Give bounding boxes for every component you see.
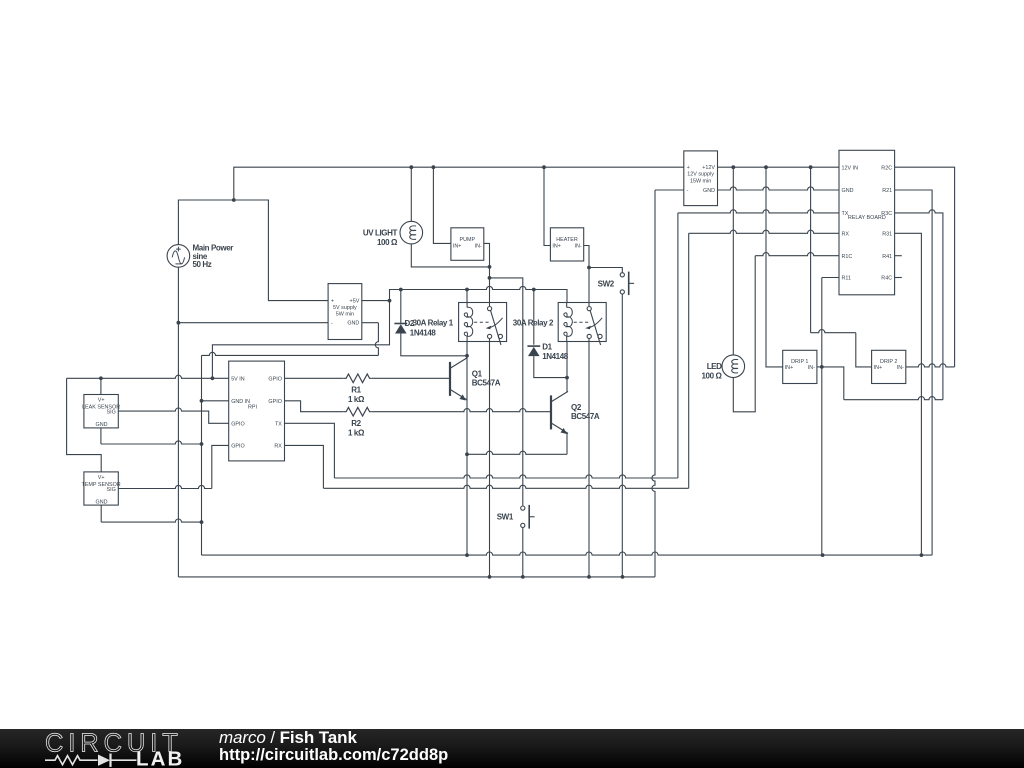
- wire: relay2 NO contact to neutral bus: [588, 339, 590, 577]
- wire: SW1 bottom to neutral bus: [522, 528, 524, 577]
- svg-text:R4C: R4C: [881, 276, 892, 282]
- transistor Q2: [551, 391, 600, 434]
- CircuitLab logo: [45, 730, 184, 768]
- svg-text:DRIP 2: DRIP 2: [880, 359, 897, 365]
- wire: R2C to DRIP2 IN-: [895, 167, 955, 367]
- pushbutton SW2: [598, 272, 634, 296]
- wire: R31 down to ground bus: [895, 233, 922, 555]
- voltage source V1 Main Power: [167, 244, 233, 269]
- wire: DRIP1 IN+ feed: [766, 167, 783, 367]
- svg-text:1 kΩ: 1 kΩ: [348, 395, 365, 404]
- svg-text:30A Relay 2: 30A Relay 2: [513, 318, 554, 327]
- svg-text:GND: GND: [96, 422, 108, 428]
- svg-text:GND: GND: [347, 321, 359, 327]
- wire: DRIP1 IN- node (R11 / R3C / ground): [817, 278, 844, 556]
- svg-text:IN-: IN-: [475, 244, 482, 250]
- svg-text:IN-: IN-: [575, 244, 582, 250]
- svg-text:+12V: +12V: [702, 165, 715, 171]
- diode D1: [527, 343, 568, 362]
- svg-text:SIG: SIG: [107, 487, 116, 493]
- svg-text:DRIP 1: DRIP 1: [791, 359, 808, 365]
- svg-text:50 Hz: 50 Hz: [193, 260, 212, 269]
- svg-text:BC547A: BC547A: [472, 379, 501, 388]
- wire: D1 cathode riser: [533, 290, 535, 345]
- svg-text:5V supply: 5V supply: [333, 305, 357, 311]
- svg-text:R2C: R2C: [881, 165, 892, 171]
- svg-text:-: -: [331, 321, 333, 327]
- svg-text:15W min: 15W min: [690, 178, 711, 184]
- svg-text:D1: D1: [542, 343, 552, 352]
- wire: GPIO to R1: [285, 377, 344, 379]
- svg-text:RX: RX: [274, 444, 282, 450]
- svg-text:R11: R11: [842, 276, 852, 282]
- svg-text:SW2: SW2: [598, 279, 615, 288]
- wire: UV light leads: [411, 167, 489, 267]
- wire: 5V IN line to RPI: [67, 375, 229, 380]
- wire: GPIO to R2: [285, 401, 344, 412]
- RPI box: [229, 361, 285, 461]
- wire: RPI RX to relay board: [285, 445, 324, 488]
- PUMP box: [451, 228, 484, 260]
- svg-text:BC547A: BC547A: [571, 412, 600, 421]
- TEMP SENSOR box: [82, 472, 121, 506]
- svg-text:1N4148: 1N4148: [410, 329, 437, 338]
- wire: 12V GND to relay board: [718, 187, 840, 190]
- wire: temp sensor GND: [100, 505, 102, 522]
- wire: LED feed from +12V: [732, 167, 734, 355]
- wire: RPI TX to relay board: [285, 423, 335, 478]
- svg-text:IN+: IN+: [552, 244, 561, 250]
- wire: logic ground bus: [202, 552, 933, 557]
- svg-text:RELAY BOARD: RELAY BOARD: [848, 215, 886, 221]
- wire: +5V output net: [211, 286, 568, 380]
- svg-text:Q2: Q2: [571, 403, 582, 412]
- wire: 5V GND net: [200, 323, 379, 555]
- LEAK SENSOR box: [82, 395, 120, 429]
- svg-text:UV LIGHT: UV LIGHT: [363, 228, 398, 237]
- svg-text:RPI: RPI: [248, 404, 257, 410]
- wire: temp sensor SIG to GPIO: [118, 485, 212, 488]
- wire: sensors V+ feed: [67, 378, 102, 472]
- svg-text:R41: R41: [882, 254, 892, 260]
- wire: heater IN- to relay 2 common and SW2: [584, 246, 623, 307]
- svg-text:GPIO: GPIO: [268, 377, 281, 383]
- svg-text:GPIO: GPIO: [268, 399, 281, 405]
- wire: RPI GND IN: [202, 400, 229, 402]
- wire: relay1 common jog to SW1: [490, 278, 523, 506]
- svg-text:V+: V+: [98, 475, 105, 481]
- wire: mains neutral bus: [177, 190, 684, 579]
- wire: D2 cathode riser: [400, 290, 402, 323]
- pushbutton SW1: [497, 505, 535, 529]
- wire: mains top lead / 5V supply + input: [178, 198, 328, 301]
- wire: R1 to Q1 base: [372, 377, 450, 379]
- svg-text:-: -: [687, 188, 689, 194]
- svg-text:12V IN: 12V IN: [842, 165, 859, 171]
- wire: Q1 collector to relay 1 coil / D2: [401, 334, 469, 399]
- svg-text:100 Ω: 100 Ω: [702, 371, 723, 380]
- svg-text:IN-: IN-: [808, 365, 815, 371]
- svg-text:1N4148: 1N4148: [542, 352, 569, 361]
- 12V supply box: [684, 151, 718, 206]
- svg-text:100 Ω: 100 Ω: [377, 238, 398, 247]
- lamp UV LIGHT: [363, 221, 423, 247]
- svg-text:GPIO: GPIO: [231, 444, 244, 450]
- svg-text:RX: RX: [842, 232, 850, 238]
- svg-text:+5V: +5V: [350, 299, 360, 305]
- svg-text:GND: GND: [96, 500, 108, 506]
- svg-text:GND: GND: [703, 188, 715, 194]
- svg-text:LED: LED: [707, 362, 722, 371]
- wire: pump IN- to relay 1 common: [484, 243, 492, 306]
- wire: 5V supply - input: [178, 322, 328, 324]
- svg-text:SW1: SW1: [497, 513, 514, 522]
- wire: relay1 NO contact to neutral bus: [489, 339, 491, 577]
- lamp LED: [702, 355, 745, 380]
- svg-text:SIG: SIG: [107, 410, 116, 416]
- wire: R4C stub: [895, 277, 902, 279]
- svg-text:GPIO: GPIO: [231, 422, 244, 428]
- wire: LED return to R1C: [733, 256, 755, 412]
- RELAY BOARD box: [839, 150, 895, 294]
- svg-text:GND: GND: [842, 188, 854, 194]
- svg-text:R21: R21: [882, 188, 892, 194]
- footer title text: [219, 729, 448, 764]
- svg-text:IN+: IN+: [453, 244, 462, 250]
- wire: Q2 emitter to Q1 emitter: [566, 433, 568, 455]
- svg-text:LAB: LAB: [136, 747, 184, 768]
- svg-text:Q1: Q1: [472, 370, 483, 379]
- wire: R41 stub: [895, 255, 902, 257]
- svg-text:V+: V+: [98, 398, 105, 404]
- wire: +12V rail to relay board: [718, 165, 840, 169]
- resistor R1: [344, 374, 372, 404]
- svg-text:R31: R31: [882, 232, 892, 238]
- relay K2 30A Relay 2: [513, 303, 606, 346]
- resistor R2: [344, 407, 372, 437]
- svg-text:30A Relay 1: 30A Relay 1: [413, 318, 454, 327]
- DRIP 2 box: [872, 350, 906, 383]
- svg-text:+: +: [331, 299, 334, 305]
- svg-text:IN-: IN-: [897, 365, 904, 371]
- wire: heater IN+ feed: [544, 167, 550, 245]
- wire: SW2 bottom to neutral bus: [621, 294, 623, 577]
- 5V supply box: [328, 284, 362, 340]
- wire: R3C to DRIP1 node: [895, 210, 943, 400]
- svg-text:R1C: R1C: [842, 254, 853, 260]
- wire: leak sensor SIG to GPIO: [118, 408, 228, 423]
- DRIP 1 box: [783, 350, 817, 383]
- svg-text:PUMP: PUMP: [460, 237, 476, 243]
- wire: D1 anode to Q2 collector: [534, 342, 569, 392]
- wire: leak sensor GND: [100, 428, 102, 444]
- svg-text:5W min: 5W min: [336, 312, 354, 318]
- wire: Q1 emitter down to ground bus: [465, 399, 469, 556]
- diode D2: [394, 319, 436, 338]
- transistor Q1: [450, 358, 501, 401]
- svg-text:HEATER: HEATER: [556, 237, 578, 243]
- wire: R21 down to ground bus: [895, 190, 933, 555]
- wire: R2 to Q2 base: [372, 409, 551, 412]
- svg-text:12V supply: 12V supply: [687, 172, 714, 178]
- svg-text:R2: R2: [351, 419, 361, 428]
- wire: top AC rail: [234, 165, 684, 200]
- svg-text:IN+: IN+: [785, 365, 794, 371]
- svg-text:1 kΩ: 1 kΩ: [348, 428, 365, 437]
- HEATER box: [550, 228, 583, 261]
- wire: DRIP2 IN+ feed: [810, 167, 812, 333]
- svg-text:+: +: [687, 165, 690, 171]
- svg-text:TX: TX: [275, 422, 282, 428]
- svg-text:R1: R1: [351, 385, 361, 394]
- wire: pump IN+ feed: [433, 167, 451, 243]
- relay K1 30A Relay 1: [413, 303, 507, 346]
- svg-text:5V IN: 5V IN: [231, 377, 245, 383]
- svg-text:IN+: IN+: [874, 365, 883, 371]
